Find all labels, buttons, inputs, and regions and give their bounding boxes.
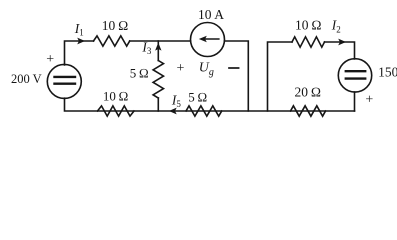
svg-text:10 Ω: 10 Ω [103, 89, 129, 104]
svg-text:150: 150 [378, 65, 397, 80]
svg-text:+: + [46, 52, 54, 67]
svg-text:10 A: 10 A [198, 7, 224, 22]
svg-text:5 Ω: 5 Ω [130, 66, 149, 81]
svg-text:+: + [177, 61, 185, 76]
svg-text:+: + [365, 92, 373, 107]
svg-text:10 Ω: 10 Ω [295, 18, 322, 33]
svg-text:10 Ω: 10 Ω [102, 18, 129, 33]
svg-text:200 V: 200 V [11, 72, 42, 86]
svg-text:20 Ω: 20 Ω [295, 85, 322, 100]
svg-text:5 Ω: 5 Ω [188, 90, 207, 105]
